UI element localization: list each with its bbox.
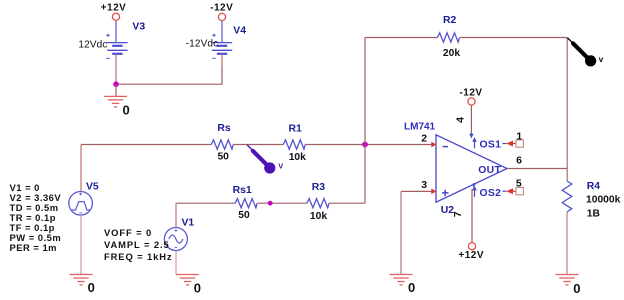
ground 0 (V1, offset right) [176, 275, 199, 286]
resistor R2 [438, 33, 460, 42]
junction dot row 2 [268, 201, 273, 206]
op-amp U2 triangle [436, 135, 507, 202]
svg-text:VAMPL = 2.5: VAMPL = 2.5 [104, 239, 170, 250]
svg-text:10k: 10k [310, 211, 327, 222]
svg-text:V1: V1 [182, 218, 195, 229]
svg-text:V5: V5 [86, 182, 99, 193]
svg-text:0: 0 [123, 102, 130, 117]
pin 4 supply wire [470, 105, 472, 138]
voltage source V5 (VPULSE) [69, 192, 93, 216]
wire R4 bottom to ground [566, 212, 568, 274]
wire feedback top left [365, 37, 438, 39]
wire feedback top right [460, 37, 568, 39]
svg-text:R2: R2 [443, 15, 457, 26]
wire R3 to riser [329, 202, 365, 204]
svg-text:0: 0 [573, 281, 580, 296]
power pin circle +12V [112, 13, 119, 20]
power pin circle -12V (op-amp) [468, 98, 475, 105]
wire Rs1 to R3 [257, 202, 307, 204]
resistor R3 [307, 199, 329, 208]
svg-text:PER = 1m: PER = 1m [10, 242, 58, 253]
svg-text:0: 0 [194, 281, 201, 296]
svg-text:10000k: 10000k [586, 195, 621, 206]
wire V1 to Rs1 (row 2) [175, 203, 177, 227]
pin 5 arrow and pad [503, 190, 507, 192]
wire V3 bottom [115, 54, 117, 84]
ground 0 (power section) [104, 96, 127, 107]
svg-text:Rs: Rs [217, 123, 231, 134]
plus input marker [442, 190, 449, 196]
svg-text:1B: 1B [587, 209, 600, 220]
svg-text:+12V: +12V [101, 2, 127, 13]
wire feedback riser [364, 38, 366, 204]
pin 2 red marker [431, 142, 436, 148]
svg-text:OUT: OUT [478, 165, 501, 176]
svg-text:+12V: +12V [458, 250, 484, 261]
svg-text:4: 4 [454, 117, 466, 123]
resistor R4 (vertical) [562, 181, 572, 212]
svg-text:10k: 10k [289, 152, 306, 163]
wire R1 to op-amp pin 2 [305, 144, 431, 146]
resistor R1 [283, 140, 305, 149]
V5 parameter text block [10, 182, 62, 253]
resistor Rs1 [235, 199, 257, 208]
svg-text:5: 5 [516, 178, 522, 190]
svg-text:2: 2 [421, 133, 427, 145]
minus input marker [443, 146, 449, 148]
svg-text:V4: V4 [233, 25, 246, 36]
resistor Rs [211, 140, 233, 149]
svg-text:FREQ = 1kHz: FREQ = 1kHz [104, 251, 173, 262]
wire V1 bottom to ground [175, 251, 177, 275]
svg-text:OS2: OS2 [480, 188, 502, 199]
OS2 stub arrow [474, 190, 476, 197]
svg-text:LM741: LM741 [404, 122, 436, 133]
svg-text:R4: R4 [587, 181, 601, 192]
pin 1 arrow and pad [503, 143, 507, 145]
ground 0 (R4) [556, 275, 579, 286]
voltage source V1 (VSIN) [164, 228, 187, 251]
svg-text:-12V: -12V [210, 3, 233, 14]
svg-text:50: 50 [238, 210, 250, 221]
ground 0 (pin 3) [390, 275, 413, 286]
svg-text:12Vdc: 12Vdc [78, 39, 107, 50]
OS1 stub arrow [474, 141, 476, 148]
svg-text:6: 6 [516, 154, 522, 166]
wire V3 pin stub [115, 20, 117, 42]
junction dot power ground node [113, 81, 119, 87]
node wire V5 to Rs (row 1) [80, 145, 82, 192]
voltage source V4 battery [212, 34, 232, 59]
svg-text:0: 0 [408, 280, 415, 295]
pin 6 output wire [507, 168, 567, 170]
svg-text:R3: R3 [312, 182, 326, 193]
svg-text:v: v [599, 54, 604, 64]
svg-text:3: 3 [421, 179, 427, 191]
V1 parameter text block [104, 227, 173, 262]
wire Rs to R1 [233, 144, 283, 146]
svg-text:7: 7 [452, 211, 464, 217]
svg-text:Rs1: Rs1 [233, 185, 252, 196]
wire pin3 ground branch [401, 190, 432, 192]
wire V4 pin stub [221, 21, 223, 43]
pin 4 entry arrow [469, 134, 473, 139]
svg-text:OS1: OS1 [480, 139, 502, 150]
svg-text:1: 1 [516, 130, 522, 142]
power pin circle -12V [218, 13, 225, 20]
svg-text:50: 50 [217, 152, 229, 163]
wire V5 bottom to ground [80, 215, 82, 274]
svg-text:VOFF = 0: VOFF = 0 [104, 227, 152, 238]
pin 3 red marker [431, 189, 436, 195]
wire stub to ground [115, 84, 117, 96]
svg-text:V: V [278, 164, 283, 171]
svg-text:0: 0 [88, 280, 95, 295]
pin 7 supply wire [471, 189, 473, 243]
pin 7 plus marker [472, 183, 476, 187]
wire V4 bottom to ground node [221, 54, 223, 68]
voltage probe (black) at output [567, 38, 573, 44]
svg-text:-12Vdc: -12Vdc [186, 39, 219, 50]
ground 0 (V5) [70, 275, 93, 286]
power pin circle +12V (op-amp) [468, 243, 475, 250]
voltage probe (purple) on node between Rs and R1 [247, 145, 254, 152]
voltage source V3 battery [106, 34, 127, 59]
svg-text:20k: 20k [443, 48, 460, 59]
svg-text:-12V: -12V [459, 87, 482, 98]
junction dot summing node [362, 142, 368, 148]
svg-text:R1: R1 [289, 123, 303, 134]
svg-text:V3: V3 [132, 21, 145, 32]
